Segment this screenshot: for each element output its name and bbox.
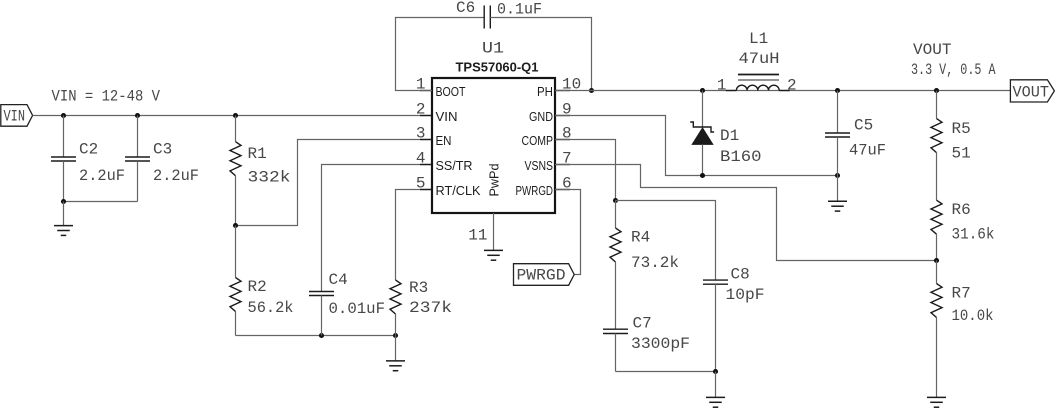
pin 2 VIN	[416, 101, 458, 125]
svg-text:3: 3	[416, 125, 426, 143]
ground pin 11	[484, 250, 503, 260]
svg-text:11: 11	[468, 227, 487, 245]
inductor L1	[726, 75, 790, 91]
capacitor C4	[309, 292, 334, 336]
capacitor C7	[603, 329, 628, 371]
wire VIN bus	[33, 115, 432, 117]
svg-text:BOOT: BOOT	[436, 84, 466, 99]
pin 7 VSNS	[525, 150, 572, 174]
svg-text:VIN: VIN	[436, 109, 458, 124]
pin 4 SS/TR	[416, 150, 473, 174]
wire EN net	[236, 140, 433, 226]
svg-text:R6: R6	[952, 201, 971, 219]
svg-text:R4: R4	[631, 229, 650, 247]
resistor R2	[230, 226, 241, 336]
junction PH/C6	[589, 88, 594, 93]
capacitor C3	[125, 116, 150, 202]
resistor R5	[931, 91, 942, 201]
junction VIN/C2	[61, 113, 66, 118]
ground C7/C8	[706, 372, 725, 408]
junction R3 bottom	[393, 333, 398, 338]
flag PWRGD	[514, 264, 575, 286]
junction VIN/R1	[233, 113, 238, 118]
pin 1 BOOT	[416, 76, 466, 100]
svg-text:VSNS: VSNS	[525, 158, 554, 173]
junction VIN/C3	[135, 113, 140, 118]
svg-text:D1: D1	[720, 127, 739, 145]
junction R5 top	[934, 88, 939, 93]
svg-text:C7: C7	[633, 315, 652, 333]
svg-text:51: 51	[952, 145, 971, 163]
svg-text:SS/TR: SS/TR	[436, 158, 473, 173]
wire COMP to C8	[616, 201, 716, 281]
pin 5 RT/CLK	[416, 175, 481, 199]
svg-text:5: 5	[416, 175, 426, 193]
svg-text:10pF: 10pF	[726, 286, 765, 304]
svg-text:10.0k: 10.0k	[952, 307, 994, 325]
pin 6 PWRGD	[516, 175, 572, 199]
svg-text:VOUT: VOUT	[913, 41, 952, 59]
flag VIN	[1, 105, 33, 127]
resistor R7	[931, 261, 942, 398]
ground C5	[828, 176, 847, 212]
svg-text:R7: R7	[952, 285, 971, 303]
svg-text:1: 1	[717, 76, 727, 94]
pin 8 COMP	[522, 125, 572, 149]
svg-text:TPS57060-Q1: TPS57060-Q1	[456, 60, 539, 75]
wire C7 to ground junction	[616, 371, 716, 373]
capacitor C8	[703, 280, 728, 371]
junction C5 bottom	[835, 173, 840, 178]
junction R6/R7/VSNS	[934, 258, 939, 263]
pin 11 stub	[493, 213, 495, 250]
svg-text:C2: C2	[79, 141, 98, 159]
junction D1 bottom	[700, 173, 705, 178]
svg-text:C6: C6	[456, 0, 475, 17]
capacitor C2	[51, 116, 76, 202]
wire PWRGD net	[555, 190, 581, 275]
svg-text:2: 2	[416, 101, 426, 119]
diode D1 (schottky)	[690, 91, 714, 176]
svg-text:VIN: VIN	[4, 107, 26, 125]
svg-text:VIN = 12-48 V: VIN = 12-48 V	[52, 88, 161, 106]
svg-text:GND: GND	[529, 109, 553, 124]
ground R7	[927, 397, 946, 407]
svg-text:RT/CLK: RT/CLK	[436, 183, 481, 198]
wire PH to VOUT	[555, 90, 1010, 92]
svg-text:PH: PH	[537, 84, 553, 99]
resistor R3	[390, 280, 401, 336]
svg-text:0.01uF: 0.01uF	[329, 300, 386, 318]
svg-text:R3: R3	[409, 279, 428, 297]
svg-text:4: 4	[416, 150, 426, 168]
flag VOUT	[1010, 80, 1054, 102]
svg-text:47uH: 47uH	[739, 50, 780, 68]
svg-text:PWRGD: PWRGD	[516, 183, 554, 198]
svg-text:B160: B160	[720, 148, 762, 166]
ground R3	[386, 336, 405, 371]
svg-text:3.3 V, 0.5 A: 3.3 V, 0.5 A	[911, 61, 996, 79]
junction C7/C8 ground	[713, 369, 718, 374]
svg-text:EN: EN	[436, 133, 452, 148]
pin 3 EN	[416, 125, 452, 149]
svg-text:47uF: 47uF	[849, 142, 886, 160]
resistor R4	[610, 201, 621, 330]
svg-text:U1: U1	[482, 39, 504, 57]
svg-text:3300pF: 3300pF	[631, 335, 690, 353]
svg-text:56.2k: 56.2k	[248, 299, 294, 317]
svg-text:332k: 332k	[248, 169, 291, 187]
svg-text:COMP: COMP	[522, 133, 554, 148]
svg-text:31.6k: 31.6k	[952, 226, 995, 244]
svg-text:237k: 237k	[409, 299, 452, 317]
svg-text:L1: L1	[749, 30, 768, 48]
ground input caps	[54, 202, 73, 236]
resistor R6	[931, 200, 942, 260]
wire GND net	[555, 116, 838, 176]
wire BOOT to C6	[396, 18, 485, 91]
svg-text:R5: R5	[952, 120, 971, 138]
pin 9 GND	[529, 101, 572, 125]
wire C6 to PH	[490, 18, 591, 91]
IC U1 body	[432, 78, 555, 213]
capacitor C5	[825, 91, 850, 176]
capacitor C6	[484, 6, 490, 29]
svg-text:2.2uF: 2.2uF	[153, 167, 199, 185]
junction C2/C3 ground	[61, 199, 66, 204]
svg-text:C5: C5	[854, 117, 873, 135]
svg-text:PwPd: PwPd	[486, 164, 501, 197]
svg-text:C8: C8	[731, 266, 750, 284]
wire VSNS net	[555, 165, 937, 261]
svg-text:2: 2	[787, 76, 797, 94]
wire R2/C4/R3 bottom	[236, 335, 396, 337]
svg-text:73.2k: 73.2k	[631, 254, 679, 272]
wire C3 to C2 ground link	[64, 201, 138, 203]
resistor R1	[230, 116, 241, 226]
svg-text:0.1uF: 0.1uF	[497, 1, 542, 19]
svg-text:2.2uF: 2.2uF	[79, 167, 125, 185]
junction C4 bottom	[319, 333, 324, 338]
junction C5 top	[835, 88, 840, 93]
svg-text:C4: C4	[329, 271, 348, 289]
junction COMP/R4/C8	[613, 198, 618, 203]
svg-text:C3: C3	[153, 141, 172, 159]
wire SS/TR net	[322, 165, 433, 292]
svg-text:R1: R1	[248, 145, 267, 163]
wire COMP net	[555, 140, 616, 201]
junction D1 top	[700, 88, 705, 93]
svg-text:R2: R2	[248, 278, 267, 296]
svg-text:VOUT: VOUT	[1013, 84, 1050, 102]
svg-text:PWRGD: PWRGD	[517, 267, 566, 285]
wire RT/CLK net	[396, 190, 433, 281]
pin 10 PH	[537, 76, 581, 100]
junction R1/R2/EN	[233, 223, 238, 228]
